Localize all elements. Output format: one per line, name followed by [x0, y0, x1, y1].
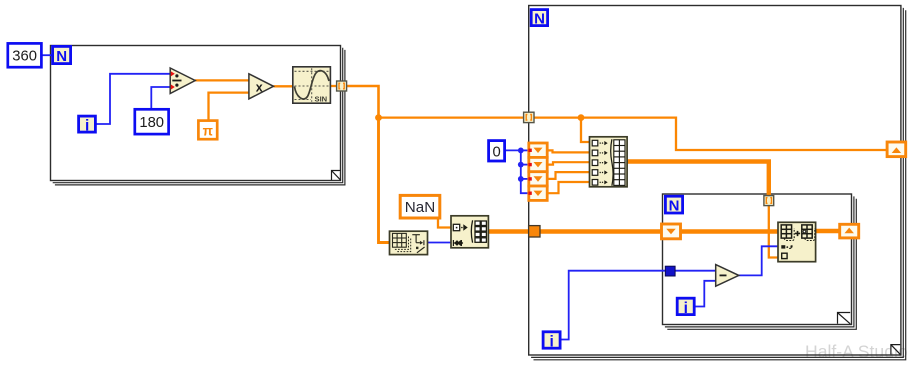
wire: sine to F1 tunnel	[331, 85, 338, 87]
wire: F3 down-arrow tunnel to replace-submatrix (thick)	[680, 229, 778, 233]
iteration terminal i of F2	[543, 332, 560, 351]
svg-text:π: π	[203, 123, 213, 138]
wire: F1 tunnel right, down to junction	[346, 86, 379, 119]
matrix size icon	[390, 231, 428, 254]
numeric constant 0	[489, 141, 505, 161]
junction dot J1	[375, 114, 382, 121]
junction dot J2	[578, 114, 585, 121]
solid tunnel on F2 left edge	[529, 226, 540, 237]
iteration terminal i of F1	[79, 116, 96, 135]
numeric constant 180	[135, 109, 169, 134]
pi constant	[198, 121, 217, 140]
build matrix node	[590, 137, 628, 187]
svg-text:x: x	[256, 80, 263, 94]
wire: outer i terminal up to F3 blue square tunnel	[561, 271, 666, 340]
for loop F3 (inner) main frame	[663, 194, 852, 325]
iteration terminal i of F3	[677, 298, 694, 317]
svg-text:N: N	[669, 197, 680, 214]
wire: blue tunnel to subtract top input	[674, 270, 716, 272]
wire: 0 constant to indexing tunnels (blue with junction dots)	[505, 150, 530, 193]
svg-text:i: i	[550, 333, 554, 350]
svg-text:180: 180	[139, 115, 164, 131]
wire: pi to multiply bottom input	[209, 93, 250, 121]
wire: initialize-array to F2 solid tunnel (thick)	[489, 229, 531, 233]
tunnel T2 on F2 left edge	[524, 112, 534, 122]
wire: subtract output to replace-submatrix index input	[739, 246, 779, 275]
svg-text:0: 0	[492, 145, 500, 161]
indexing tunnel column (4 down-arrow tunnels) on F2 left edge	[529, 143, 547, 200]
for loop F2 (outer right) main frame fill	[529, 6, 901, 356]
count terminal N of F3	[665, 196, 682, 214]
wire: F3 top tunnel down to replace-submatrix lower input	[769, 206, 778, 258]
wire: i to divide top input	[96, 74, 170, 124]
wire: replace-submatrix to F3 right tunnel (thick)	[816, 229, 841, 233]
sine function icon	[293, 67, 331, 104]
for loop F2 dog-ear corner	[891, 345, 900, 355]
svg-text:360: 360	[12, 48, 37, 64]
wire: inner i to subtract bottom input	[695, 281, 716, 307]
subtract node	[716, 265, 739, 287]
wire: F2 solid tunnel to F3 down-arrow tunnel (thick)	[538, 229, 663, 233]
divide node	[170, 68, 195, 94]
for loop F3 dog-ear corner	[838, 313, 851, 324]
wire: junction to F2 left tunnel	[378, 116, 525, 118]
wire: divide to multiply	[195, 79, 249, 81]
for loop F3 (inner) shadow frames	[665, 196, 856, 329]
wire: junction down to matrix-size icon	[379, 118, 390, 243]
count terminal N of F1	[53, 46, 71, 65]
tunnel on F3 top edge	[764, 196, 774, 206]
for loop F1 (left) shadow frames	[53, 48, 345, 185]
coercion dots on indexing tunnels	[528, 149, 531, 195]
blue square tunnel on F3 left edge	[665, 266, 675, 276]
svg-text:i: i	[684, 300, 688, 317]
svg-text:SIN: SIN	[315, 95, 328, 104]
for loop F1 dog-ear corner	[332, 171, 341, 181]
for loop F2 (outer right) shadow frames	[531, 8, 906, 360]
multiply node	[249, 74, 274, 99]
replace submatrix icon	[778, 222, 816, 261]
tunnel T1 on F1 right edge	[337, 81, 347, 91]
for loop F2 (outer right) main frame border	[529, 6, 901, 356]
svg-text:N: N	[534, 10, 545, 27]
initialize array icon	[451, 216, 488, 248]
svg-text:N: N	[56, 48, 67, 65]
wire: NaN down into initialize-array	[438, 219, 451, 228]
up-arrow indexing tunnel on F3 right edge	[840, 224, 859, 238]
down-arrow indexing tunnel on F3 left edge	[662, 224, 681, 239]
wire: matrix-size to initialize-array (blue)	[428, 242, 451, 244]
svg-text:NaN: NaN	[405, 199, 435, 216]
NaN constant	[400, 195, 440, 218]
wire: build-matrix output to F3 top tunnel (thick)	[627, 162, 769, 197]
wires: indexing tunnels to build-matrix inputs	[547, 150, 590, 193]
svg-text:i: i	[85, 118, 89, 135]
up-arrow indexing tunnel on F2 right edge	[887, 142, 906, 157]
wire: 180 to divide bottom input	[151, 87, 170, 109]
numeric constant 360	[8, 43, 42, 67]
for loop F1 (left) main frame	[51, 46, 341, 181]
junction dots on 0-wire	[518, 148, 524, 154]
wire: inside F2, left tunnel to junction J2 and onward to right tunnel	[534, 118, 887, 150]
wire: J2 branch down to build-matrix input 1	[581, 118, 590, 142]
count terminal N of F2	[531, 10, 547, 28]
wire: multiply to sine	[274, 85, 293, 87]
wire: 360 to N	[42, 54, 52, 56]
